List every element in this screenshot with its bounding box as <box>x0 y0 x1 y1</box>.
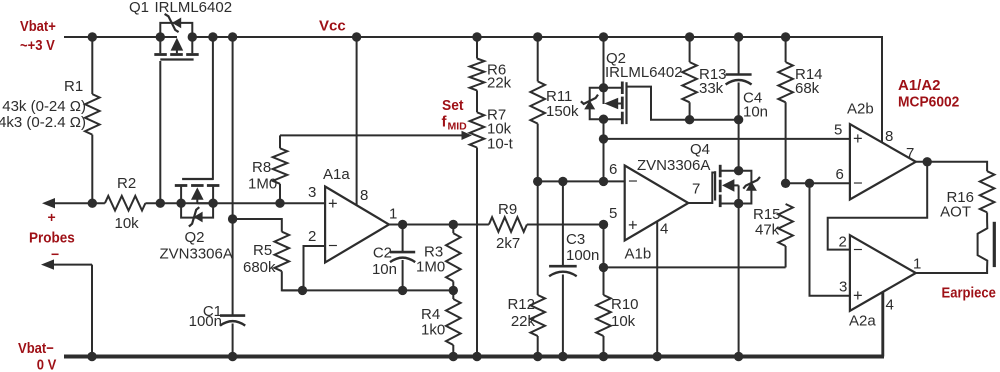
resistor R4 <box>446 290 461 356</box>
junction R11/R12/pin6 <box>533 177 542 186</box>
svg-text:A1a: A1a <box>323 166 350 183</box>
svg-text:8: 8 <box>885 128 893 145</box>
resistor R9 <box>489 217 527 232</box>
wire ground rail (Vbat-) <box>64 355 884 359</box>
junction pin5 node <box>599 220 608 229</box>
wire Q2 gate from Vcc <box>212 37 214 180</box>
pin 4 wire A2a <box>881 292 884 357</box>
junction pin2/290 wire <box>298 286 307 295</box>
svg-text:A2b: A2b <box>847 101 874 118</box>
svg-text:Probes: Probes <box>29 230 75 247</box>
junction R3/R4 <box>449 286 458 295</box>
svg-text:IRLML6402: IRLML6402 <box>605 64 683 81</box>
resistor R11 <box>530 37 545 181</box>
resistor R5 <box>233 219 303 290</box>
junction pin6/pin3 branch <box>805 179 814 188</box>
svg-text:−: − <box>853 241 863 259</box>
junction rail/R11 <box>533 32 542 41</box>
junction gnd/C1 <box>228 352 237 361</box>
svg-text:A1/A2: A1/A2 <box>898 77 941 94</box>
resistor R15 <box>778 204 793 267</box>
wire A2b pin6 net <box>786 182 850 184</box>
junction gnd/C3 <box>558 352 567 361</box>
junction R10 tap <box>599 263 608 272</box>
junction rail/R6 <box>472 32 481 41</box>
junction top rail / Q2 gate <box>208 32 217 41</box>
svg-text:Q4: Q4 <box>690 141 710 158</box>
junction Q2b drain/pin6 <box>599 177 608 186</box>
svg-text:Q2: Q2 <box>185 229 205 246</box>
svg-text:43k (0-24 Ω): 43k (0-24 Ω) <box>2 98 86 115</box>
wire Vbat+ rail (left segment to Q1 source) <box>64 36 177 38</box>
junction top rail / Q1 drain <box>188 32 197 41</box>
wire pin5-node to R15 bottom <box>604 266 786 268</box>
wire A1a output <box>389 224 489 226</box>
resistor R14 <box>778 37 793 183</box>
junction A2b out <box>923 157 932 166</box>
svg-text:R9: R9 <box>498 201 517 218</box>
capacitor C2 <box>390 225 415 291</box>
wire ground rail corner to A2a pin4 <box>882 292 885 357</box>
svg-text:−: − <box>51 246 59 262</box>
transistor Q4 (ZVN3306A N-MOSFET) <box>715 165 760 207</box>
junction Q2b drain <box>599 115 608 124</box>
junction gnd/A1b pin4 <box>653 352 662 361</box>
resistor R2 <box>105 196 145 211</box>
svg-text:5: 5 <box>609 205 617 222</box>
resistor R6 <box>470 37 485 90</box>
svg-text:+: + <box>853 287 863 305</box>
capacitor C1 <box>220 314 245 317</box>
svg-text:10k: 10k <box>115 215 140 232</box>
resistor R7 (10-turn pot) <box>470 90 485 356</box>
junction top rail / C1 branch <box>228 32 237 41</box>
wire inverting net (R5/C2/R3 bottoms) <box>282 289 454 291</box>
wire C1 to ground <box>232 324 234 357</box>
svg-text:ZVN3306A: ZVN3306A <box>637 157 710 174</box>
svg-text:1M0: 1M0 <box>248 176 277 193</box>
svg-text:IRLML6402: IRLML6402 <box>155 0 233 16</box>
svg-text:8: 8 <box>360 187 368 204</box>
svg-text:R4: R4 <box>421 306 440 323</box>
op-amp A2a <box>850 235 916 311</box>
svg-text:2: 2 <box>839 234 847 251</box>
svg-text:AOT: AOT <box>940 204 971 221</box>
resistor R16 <box>980 171 995 221</box>
svg-text:C3: C3 <box>566 231 585 248</box>
pin 8 wire A1a <box>356 37 358 206</box>
junction probe+/Q2 right <box>208 199 217 208</box>
svg-text:Vbat−: Vbat− <box>18 339 54 356</box>
transistor Q2 (IRLML6402 P-MOSFET, middle) <box>581 37 627 124</box>
svg-text:Earpiece: Earpiece <box>942 284 997 301</box>
junction C3 top <box>558 177 567 186</box>
svg-text:+: + <box>628 217 638 235</box>
svg-text:R15: R15 <box>753 206 781 223</box>
svg-text:Vbat+: Vbat+ <box>20 17 56 34</box>
svg-text:1: 1 <box>913 256 921 273</box>
svg-text:7: 7 <box>692 181 700 198</box>
svg-text:−: − <box>328 237 338 255</box>
wire to A2a pin3 <box>810 183 850 295</box>
wire Vcc rail (Q1 drain to right end, corner down to A2b pin 8) <box>192 37 882 143</box>
junction gnd/R7 <box>472 352 481 361</box>
earpiece transducer <box>978 221 995 268</box>
svg-text:3: 3 <box>839 279 847 296</box>
resistor R12 <box>530 181 545 356</box>
svg-text:4k3 (0-2.4 Ω): 4k3 (0-2.4 Ω) <box>0 114 86 131</box>
capacitor C3 <box>549 181 577 356</box>
label Vbat+ <box>20 17 56 53</box>
svg-text:1M0: 1M0 <box>416 259 445 276</box>
junction C2 bottom <box>398 286 407 295</box>
junction gnd/R10 <box>599 352 608 361</box>
wire A2a output to earpiece <box>916 268 987 273</box>
resistor R1 <box>85 37 100 203</box>
junction rail/Q2b <box>599 32 608 41</box>
svg-text:2k7: 2k7 <box>496 235 520 252</box>
transistor Q2 (ZVN3306A N-MOSFET) <box>175 179 220 227</box>
svg-text:ZVN3306A: ZVN3306A <box>160 246 233 263</box>
junction gnd/probe- <box>87 352 96 361</box>
svg-text:2: 2 <box>308 228 316 245</box>
wire A1b pin6 net <box>538 180 625 182</box>
svg-text:100n: 100n <box>566 247 599 264</box>
junction rail/C4 <box>734 32 743 41</box>
svg-text:1: 1 <box>389 206 397 223</box>
wire Q2b drain down <box>603 119 605 181</box>
resistor R10 <box>596 225 611 357</box>
junction rail/pin8 <box>352 32 361 41</box>
svg-text:6: 6 <box>836 166 844 183</box>
junction gnd/R4 <box>449 352 458 361</box>
junction rail/R14 <box>781 32 790 41</box>
wire Q2b gate to R13/C4 net <box>627 87 739 120</box>
svg-text:Q1: Q1 <box>129 0 149 16</box>
wire Q1 gate to probe+ node <box>159 61 161 203</box>
svg-text:C2: C2 <box>373 245 392 262</box>
svg-text:33k: 33k <box>699 80 724 97</box>
wire R9 to A1b pin5 <box>527 224 604 226</box>
resistor R8 <box>273 135 288 203</box>
svg-text:~+3 V: ~+3 V <box>20 36 55 53</box>
junction pin5 wire tap <box>599 134 608 143</box>
wire R2 to A1a + input <box>145 202 325 204</box>
junction Q4 drain <box>734 166 743 175</box>
junction rail/R13 <box>685 32 694 41</box>
wire Vcc to C1/R5 node <box>232 37 234 316</box>
resistor R13 <box>682 37 697 120</box>
svg-text:Set: Set <box>442 98 464 115</box>
svg-text:3: 3 <box>308 184 316 201</box>
svg-text:+: + <box>328 195 338 213</box>
svg-text:5: 5 <box>834 122 842 139</box>
junction gnd/R12 <box>533 352 542 361</box>
svg-text:10n: 10n <box>372 261 397 278</box>
svg-text:Vcc: Vcc <box>319 18 346 35</box>
svg-text:+: + <box>48 209 56 225</box>
svg-text:A2a: A2a <box>849 313 876 330</box>
capacitor C4 <box>726 37 752 120</box>
wire feedback R8 to R7 wiper <box>280 131 472 140</box>
wire Q4 source to ground <box>738 204 740 357</box>
junction gnd/Q4 <box>734 352 743 361</box>
svg-text:R12: R12 <box>507 296 535 313</box>
svg-text:−: − <box>853 175 863 193</box>
svg-text:1k0: 1k0 <box>421 322 445 339</box>
op-amp A1a <box>325 187 389 263</box>
pin 4 wire A1b <box>656 221 658 356</box>
junction out/R3 <box>449 220 458 229</box>
svg-text:6: 6 <box>609 161 617 178</box>
svg-text:R2: R2 <box>117 175 136 192</box>
svg-text:R8: R8 <box>252 159 271 176</box>
wire A1a pin2 loop <box>304 246 326 290</box>
wire A1b output to Q4 gate <box>688 173 715 204</box>
junction top rail / R1 <box>88 32 97 41</box>
junction R14/R15 <box>781 179 790 188</box>
junction top rail / Q1 source <box>156 32 165 41</box>
op-amp A1b <box>625 166 689 241</box>
svg-text:10n: 10n <box>743 104 768 121</box>
svg-text:7: 7 <box>906 145 914 162</box>
wire A2b output to R16 <box>916 162 987 171</box>
wire probe- to ground rail <box>41 259 92 356</box>
wire Q4 drain to C4 node <box>738 120 740 171</box>
junction probe+/R1 <box>88 199 97 208</box>
junction C4 bottom <box>734 115 743 124</box>
wire probe+ (arrow) <box>42 198 105 208</box>
svg-text:R1: R1 <box>64 78 83 95</box>
svg-text:68k: 68k <box>795 80 820 97</box>
svg-text:−: − <box>628 173 638 191</box>
junction Q4 source <box>734 199 743 208</box>
svg-text:22k: 22k <box>487 75 512 92</box>
svg-text:10-t: 10-t <box>487 136 514 153</box>
svg-text:4: 4 <box>886 297 894 314</box>
svg-text:22k: 22k <box>511 313 536 330</box>
label fMID <box>442 114 468 133</box>
junction probe+/Q2 left <box>176 199 185 208</box>
transistor Q1 (IRLML6402 P-MOSFET) <box>154 14 198 60</box>
junction R5 tap <box>228 214 237 223</box>
wire to A2b pin5 <box>604 138 850 140</box>
svg-text:R10: R10 <box>611 296 639 313</box>
svg-text:0 V: 0 V <box>37 356 57 372</box>
wire feedback A2b to A2a pin2 <box>828 162 928 250</box>
svg-text:100n: 100n <box>189 313 222 330</box>
svg-text:150k: 150k <box>546 103 579 120</box>
junction R13 bottom <box>685 115 694 124</box>
svg-text:MID: MID <box>448 121 468 133</box>
svg-text:R5: R5 <box>253 242 272 259</box>
svg-text:10k: 10k <box>611 313 636 330</box>
op-amp A2b <box>850 124 916 199</box>
junction out/C2 <box>398 220 407 229</box>
svg-text:+: + <box>853 130 863 148</box>
svg-text:4: 4 <box>660 221 668 238</box>
resistor R3 <box>446 225 461 291</box>
svg-text:A1b: A1b <box>625 246 652 263</box>
junction probe+/R8 <box>275 199 284 208</box>
svg-text:MCP6002: MCP6002 <box>898 94 959 111</box>
svg-text:680k: 680k <box>243 259 276 276</box>
junction Q2b source <box>599 83 608 92</box>
svg-text:47k: 47k <box>755 222 780 239</box>
junction probe+/Q1 gate <box>156 199 165 208</box>
